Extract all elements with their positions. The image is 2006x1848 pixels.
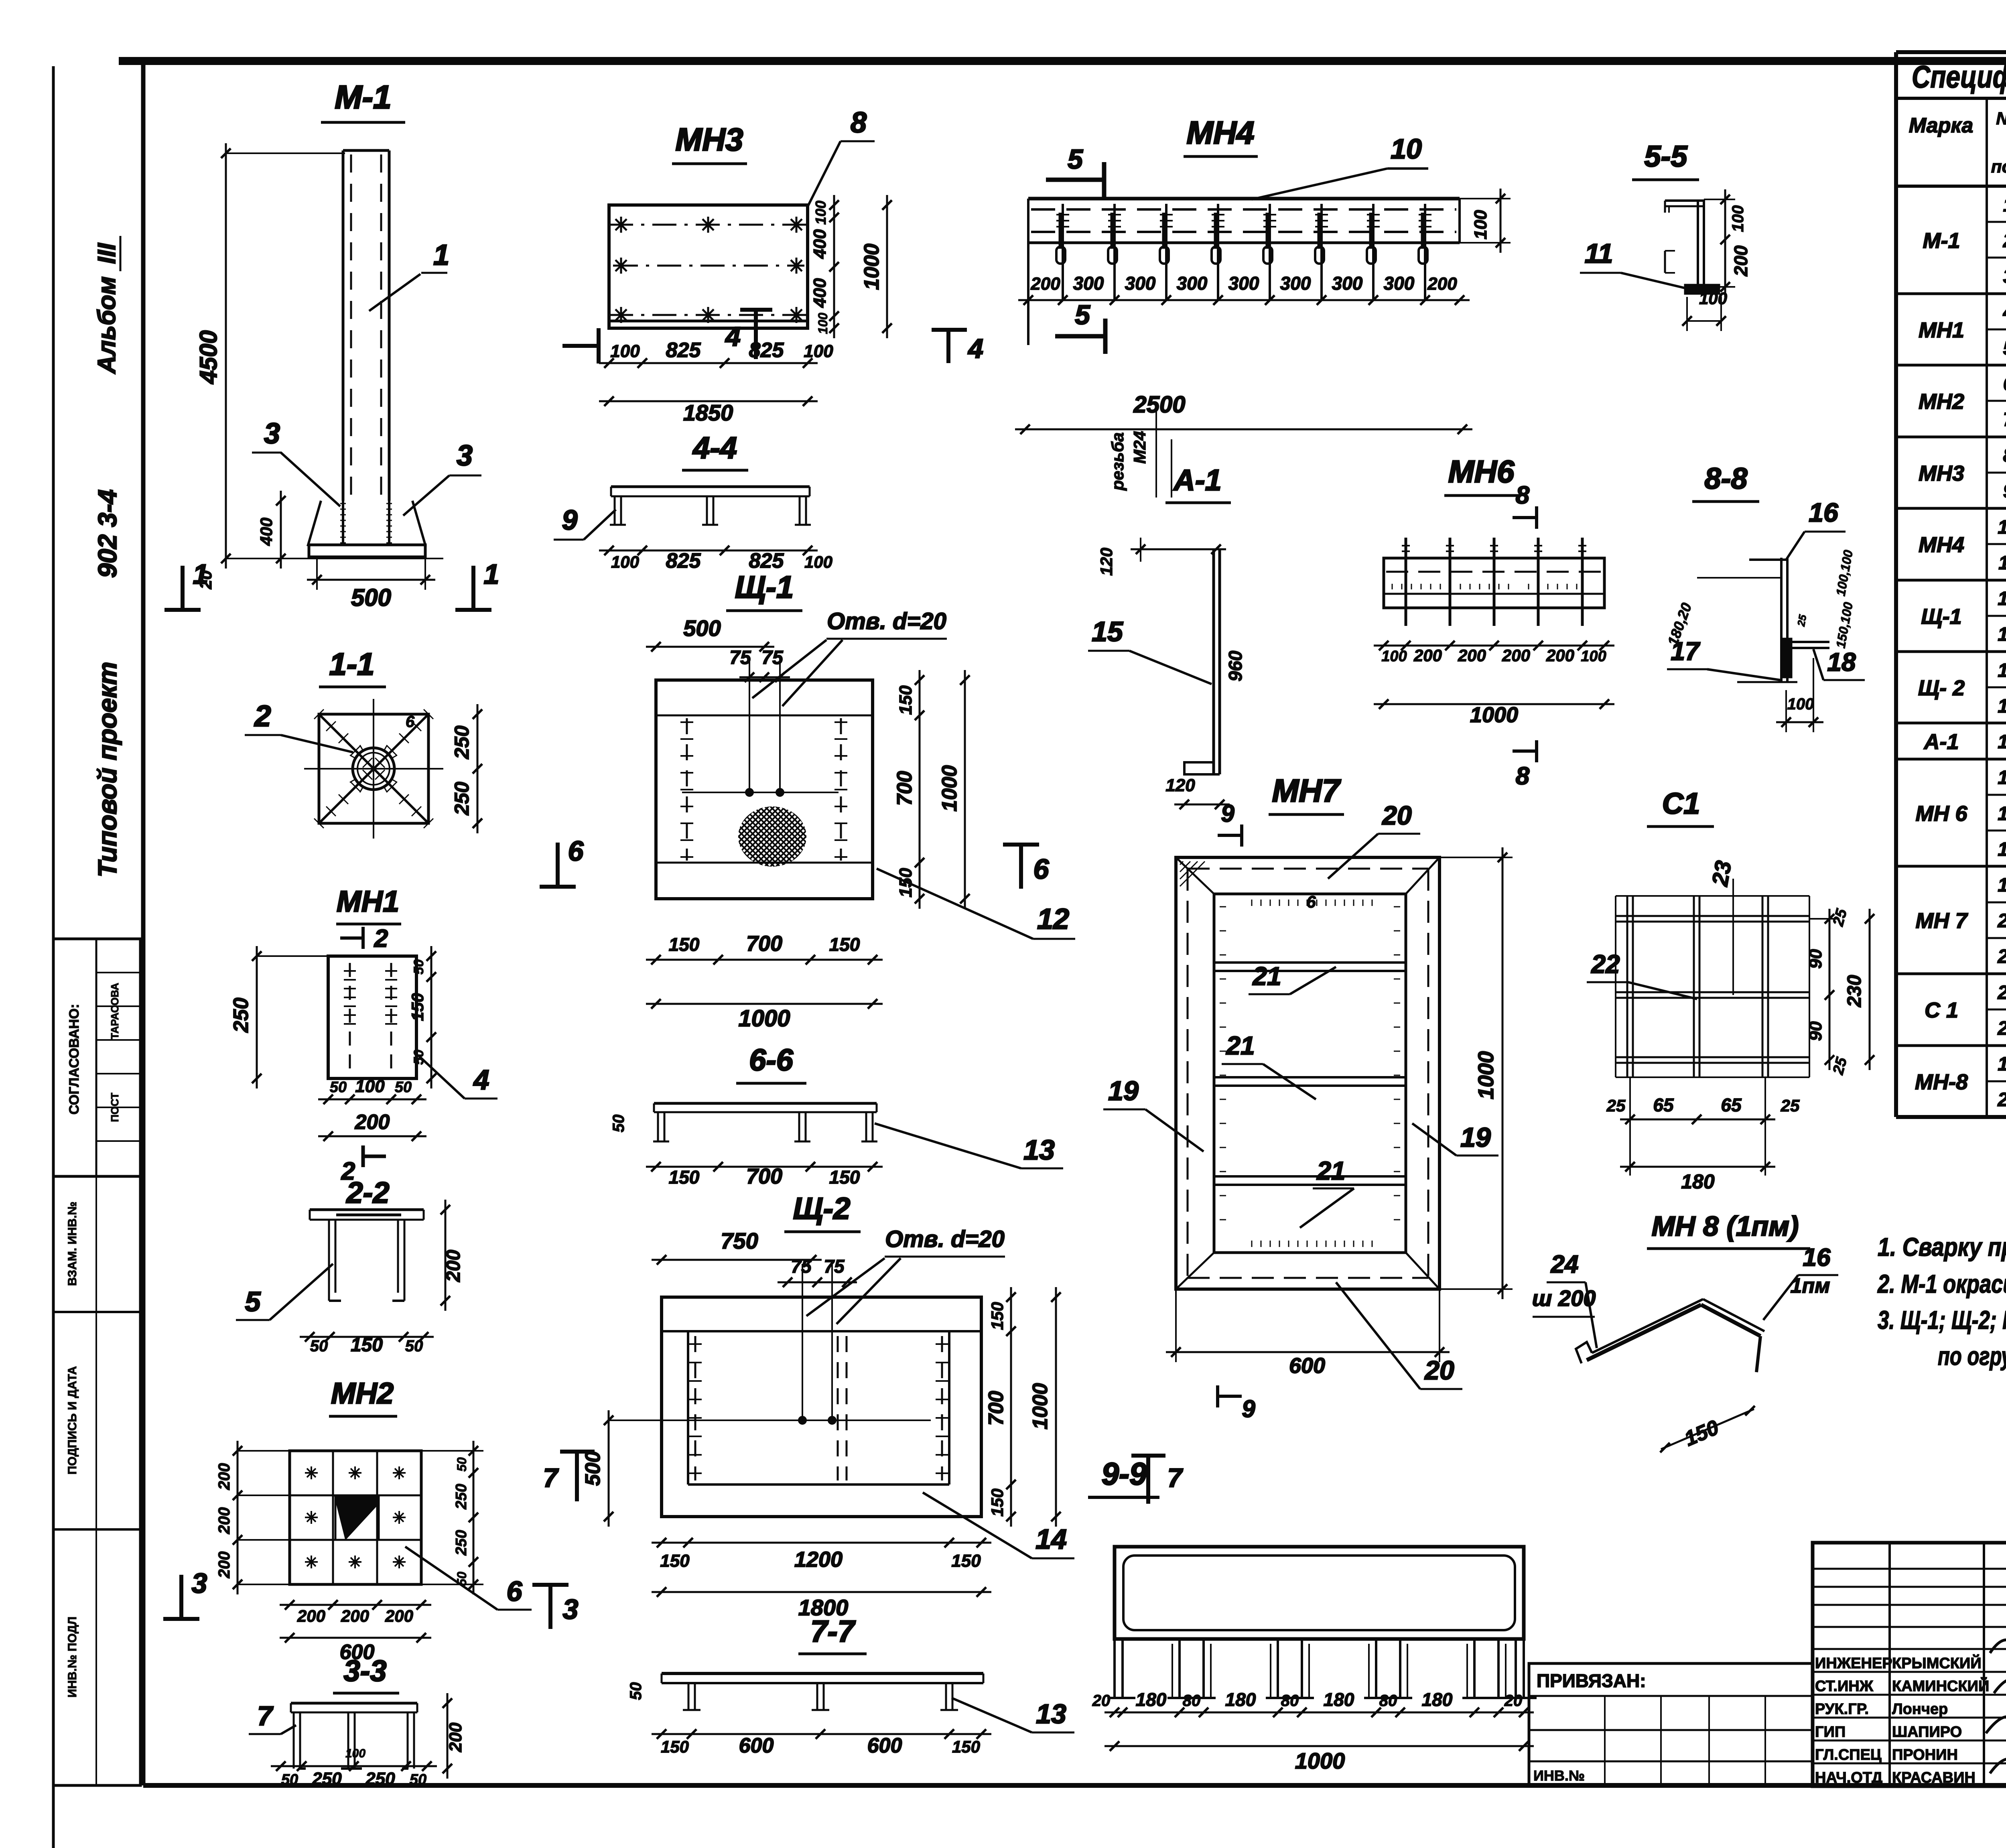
svg-text:25: 25 (1781, 1096, 1800, 1115)
svg-text:8: 8 (1516, 481, 1530, 509)
svg-text:1: 1 (484, 558, 499, 590)
svg-text:700: 700 (985, 1391, 1008, 1426)
svg-text:11: 11 (1585, 238, 1613, 269)
svg-text:21: 21 (1226, 1031, 1255, 1060)
svg-text:19: 19 (1460, 1122, 1491, 1153)
svg-text:по огрунтовке железным суриком: по огрунтовке железным суриком по ГОСТ 8… (1938, 1342, 2006, 1371)
svg-text:400: 400 (810, 278, 830, 308)
svg-text:250: 250 (365, 1769, 395, 1789)
svg-text:500: 500 (581, 1451, 605, 1486)
svg-text:24: 24 (1997, 1089, 2006, 1111)
svg-text:200: 200 (297, 1606, 325, 1625)
svg-text:ИНВ.№ ПОДЛ: ИНВ.№ ПОДЛ (66, 1616, 79, 1698)
svg-text:5: 5 (245, 1286, 261, 1317)
svg-text:100: 100 (1787, 695, 1814, 713)
svg-text:МН4: МН4 (1187, 115, 1255, 150)
svg-text:ПОДПИСЬ И ДАТА: ПОДПИСЬ И ДАТА (66, 1366, 79, 1474)
svg-text:25: 25 (1795, 613, 1809, 628)
svg-text:Альбом: Альбом (93, 276, 121, 374)
svg-text:Отв. d=20: Отв. d=20 (885, 1226, 1005, 1252)
svg-text:19: 19 (1108, 1076, 1139, 1106)
svg-text:80: 80 (1281, 1692, 1299, 1710)
svg-text:150: 150 (829, 934, 860, 955)
svg-text:100: 100 (345, 1747, 365, 1760)
svg-text:3: 3 (264, 418, 280, 450)
svg-text:8-8: 8-8 (1705, 462, 1748, 495)
svg-text:300: 300 (1332, 273, 1363, 294)
svg-text:6: 6 (1033, 853, 1050, 885)
svg-text:Щ-1: Щ-1 (735, 569, 794, 605)
svg-text:МН6: МН6 (1448, 454, 1515, 489)
svg-text:3: 3 (563, 1594, 579, 1625)
svg-text:75: 75 (824, 1256, 845, 1277)
svg-text:ПРОНИН: ПРОНИН (1892, 1746, 1958, 1763)
svg-text:1000: 1000 (1295, 1748, 1345, 1773)
svg-text:МН2: МН2 (1919, 390, 1964, 414)
svg-text:резьба: резьба (1108, 433, 1127, 491)
svg-text:100: 100 (1581, 648, 1606, 665)
svg-text:300: 300 (1384, 273, 1415, 294)
svg-text:9: 9 (1221, 800, 1234, 827)
svg-text:100: 100 (804, 341, 833, 361)
svg-text:16: 16 (1803, 1244, 1831, 1271)
svg-text:10: 10 (1998, 517, 2006, 538)
svg-text:МН4: МН4 (1919, 533, 1964, 557)
svg-text:300: 300 (1125, 273, 1156, 294)
svg-text:200: 200 (1458, 646, 1486, 665)
svg-text:19: 19 (1998, 875, 2006, 896)
svg-text:180: 180 (1681, 1170, 1715, 1193)
svg-text:6: 6 (1306, 892, 1316, 911)
svg-text:6-6: 6-6 (749, 1043, 794, 1077)
svg-text:4500: 4500 (195, 330, 222, 384)
svg-text:24: 24 (1551, 1251, 1579, 1278)
svg-text:17: 17 (1671, 637, 1701, 666)
svg-text:МН-8: МН-8 (1915, 1070, 1968, 1094)
svg-text:11: 11 (1998, 552, 2006, 574)
svg-text:50: 50 (405, 1337, 423, 1355)
svg-text:500: 500 (351, 584, 391, 611)
svg-text:7: 7 (257, 1701, 274, 1731)
svg-text:А-1: А-1 (1923, 730, 1959, 754)
svg-text:Щ- 2: Щ- 2 (1918, 676, 1965, 700)
svg-text:3-3: 3-3 (344, 1654, 387, 1688)
svg-text:150: 150 (952, 1737, 980, 1756)
svg-text:поз.: поз. (1991, 157, 2006, 177)
svg-text:NN: NN (1996, 109, 2006, 128)
svg-text:150: 150 (829, 1167, 860, 1188)
svg-text:17: 17 (1998, 803, 2006, 824)
svg-text:250: 250 (453, 1530, 470, 1556)
svg-text:250: 250 (312, 1769, 342, 1789)
svg-text:3: 3 (2003, 266, 2006, 287)
svg-text:КРЫМСКИЙ: КРЫМСКИЙ (1892, 1654, 1982, 1672)
svg-text:1000: 1000 (938, 765, 961, 812)
svg-text:825: 825 (666, 339, 701, 362)
svg-text:80: 80 (1379, 1692, 1397, 1710)
svg-text:150: 150 (660, 1551, 690, 1571)
svg-text:100: 100 (804, 552, 832, 571)
svg-text:12: 12 (1037, 903, 1069, 935)
svg-text:90: 90 (1806, 949, 1825, 969)
svg-text:9: 9 (1242, 1395, 1255, 1422)
svg-text:ШАПИРО: ШАПИРО (1892, 1724, 1962, 1740)
svg-text:250: 250 (453, 1484, 470, 1509)
svg-text:14: 14 (1998, 660, 2006, 681)
svg-text:200: 200 (215, 1507, 233, 1535)
svg-text:22: 22 (1997, 982, 2006, 1003)
svg-text:9: 9 (2003, 481, 2006, 502)
svg-text:100: 100 (355, 1076, 385, 1096)
svg-text:Отв. d=20: Отв. d=20 (827, 608, 946, 634)
svg-text:МН7: МН7 (1272, 773, 1341, 808)
svg-text:Марка: Марка (1909, 114, 1974, 137)
svg-text:100: 100 (1699, 289, 1727, 308)
svg-text:120: 120 (1165, 776, 1195, 795)
svg-text:13: 13 (1998, 696, 2006, 717)
svg-text:ИНЖЕНЕР: ИНЖЕНЕР (1815, 1655, 1892, 1672)
svg-text:5-5: 5-5 (1645, 140, 1688, 173)
svg-text:16: 16 (1809, 498, 1839, 527)
svg-text:6: 6 (2003, 374, 2006, 395)
svg-text:600: 600 (867, 1734, 902, 1757)
svg-text:СОГЛАСОВАНО:: СОГЛАСОВАНО: (67, 1004, 82, 1115)
svg-text:14: 14 (1035, 1523, 1067, 1555)
svg-text:4: 4 (725, 321, 741, 352)
svg-text:2: 2 (374, 925, 388, 952)
svg-text:М-1: М-1 (1923, 229, 1960, 253)
svg-text:20: 20 (1997, 910, 2006, 932)
svg-text:1: 1 (2003, 195, 2006, 216)
svg-text:МН 8 (1пм): МН 8 (1пм) (1652, 1210, 1799, 1242)
svg-text:150: 150 (669, 1167, 700, 1188)
svg-text:1: 1 (193, 558, 209, 590)
svg-text:22: 22 (1591, 950, 1620, 979)
svg-text:23: 23 (1707, 859, 1736, 888)
svg-text:18: 18 (1827, 648, 1856, 676)
svg-text:7-7: 7-7 (810, 1614, 856, 1649)
svg-text:ПОСТ: ПОСТ (109, 1093, 121, 1122)
svg-text:8: 8 (1516, 762, 1530, 790)
svg-text:ГИП: ГИП (1815, 1724, 1846, 1740)
svg-text:600: 600 (1289, 1354, 1325, 1378)
svg-text:150: 150 (896, 685, 916, 715)
svg-text:5: 5 (1068, 144, 1083, 175)
svg-text:1: 1 (433, 239, 449, 271)
svg-text:80: 80 (1183, 1692, 1201, 1710)
svg-text:1-1: 1-1 (329, 646, 375, 682)
svg-text:2: 2 (254, 699, 271, 733)
svg-text:МН3: МН3 (676, 122, 743, 157)
svg-text:МН 6: МН 6 (1915, 802, 1967, 826)
svg-text:ВЗАМ. ИНВ.№: ВЗАМ. ИНВ.№ (66, 1202, 79, 1286)
svg-text:5: 5 (2003, 338, 2006, 359)
svg-text:23: 23 (1997, 1018, 2006, 1039)
svg-text:1пм: 1пм (1790, 1274, 1830, 1298)
svg-text:700: 700 (893, 771, 916, 806)
svg-text:200: 200 (1413, 646, 1442, 665)
svg-text:65: 65 (1653, 1095, 1674, 1115)
svg-text:25: 25 (1606, 1096, 1626, 1115)
svg-text:1000: 1000 (1470, 703, 1518, 727)
svg-text:КРАСАВИН: КРАСАВИН (1892, 1769, 1976, 1786)
svg-text:4: 4 (2003, 302, 2006, 323)
svg-text:150: 150 (669, 934, 700, 955)
svg-text:6: 6 (507, 1576, 523, 1607)
svg-text:5: 5 (1075, 300, 1090, 330)
svg-text:ПРИВЯЗАН:: ПРИВЯЗАН: (1537, 1670, 1646, 1691)
svg-text:20: 20 (1092, 1692, 1111, 1710)
svg-text:1000: 1000 (738, 1005, 790, 1032)
svg-text:1850: 1850 (683, 400, 733, 425)
svg-text:75: 75 (729, 647, 751, 668)
svg-text:200: 200 (215, 1552, 233, 1579)
svg-text:600: 600 (739, 1734, 774, 1757)
svg-text:200: 200 (385, 1606, 413, 1625)
svg-text:М24: М24 (1130, 431, 1149, 464)
svg-text:ТАРАСОВА: ТАРАСОВА (109, 983, 121, 1039)
svg-text:180: 180 (1422, 1689, 1453, 1710)
svg-text:7: 7 (543, 1463, 559, 1493)
svg-text:2: 2 (2003, 230, 2006, 252)
svg-text:50: 50 (410, 1771, 426, 1788)
svg-text:902 3-4: 902 3-4 (93, 489, 122, 578)
svg-text:200: 200 (1546, 646, 1574, 665)
svg-text:13: 13 (1998, 624, 2006, 645)
svg-text:200: 200 (355, 1111, 390, 1134)
svg-text:100: 100 (1471, 210, 1490, 240)
svg-text:2-2: 2-2 (346, 1176, 390, 1209)
svg-text:150: 150 (661, 1737, 689, 1756)
svg-text:4-4: 4-4 (692, 431, 737, 465)
svg-text:700: 700 (746, 932, 782, 956)
svg-text:300: 300 (1073, 273, 1104, 294)
svg-text:21: 21 (1997, 946, 2006, 967)
svg-text:150: 150 (988, 1302, 1007, 1330)
svg-text:150: 150 (951, 1551, 981, 1571)
svg-text:12: 12 (1998, 588, 2006, 609)
svg-text:230: 230 (1844, 975, 1865, 1007)
svg-text:8: 8 (2003, 445, 2006, 466)
svg-text:МН1: МН1 (1919, 318, 1964, 342)
svg-text:50: 50 (455, 1457, 469, 1472)
svg-text:СТ.ИНЖ: СТ.ИНЖ (1815, 1678, 1874, 1695)
svg-text:9: 9 (562, 504, 578, 536)
svg-text:50: 50 (395, 1079, 412, 1096)
svg-text:4: 4 (967, 333, 983, 364)
svg-text:180: 180 (1324, 1689, 1354, 1710)
svg-text:300: 300 (1280, 273, 1311, 294)
svg-text:200: 200 (446, 1722, 465, 1753)
svg-text:III: III (93, 242, 121, 264)
svg-text:16: 16 (1998, 1054, 2006, 1075)
svg-text:Типовой проект: Типовой проект (93, 662, 122, 877)
svg-text:МН 7: МН 7 (1915, 909, 1968, 933)
svg-text:13: 13 (1036, 1699, 1066, 1729)
svg-text:1000: 1000 (1474, 1051, 1498, 1099)
svg-text:825: 825 (666, 549, 701, 573)
svg-text:МН1: МН1 (337, 885, 399, 918)
svg-text:С 1: С 1 (1925, 998, 1958, 1022)
svg-text:500: 500 (683, 615, 721, 641)
svg-text:200: 200 (1502, 646, 1530, 665)
svg-text:120: 120 (1097, 548, 1116, 576)
svg-text:300: 300 (1228, 273, 1259, 294)
svg-text:100: 100 (610, 341, 640, 361)
svg-text:150: 150 (351, 1334, 383, 1356)
svg-text:20: 20 (1381, 800, 1412, 830)
svg-text:2. М-1 окрасить двумя слоями к: 2. М-1 окрасить двумя слоями краски БТ-1… (1877, 1269, 2006, 1298)
svg-text:МН3: МН3 (1919, 461, 1964, 485)
svg-text:50: 50 (627, 1682, 645, 1700)
svg-text:90: 90 (1806, 1021, 1825, 1041)
svg-text:21: 21 (1316, 1156, 1345, 1185)
svg-text:400: 400 (810, 229, 830, 259)
svg-text:Лончер: Лончер (1892, 1701, 1948, 1718)
svg-text:50: 50 (281, 1771, 298, 1788)
svg-text:3: 3 (457, 440, 473, 472)
svg-text:50: 50 (330, 1079, 347, 1096)
svg-text:7: 7 (2003, 409, 2006, 431)
svg-text:16: 16 (1998, 767, 2006, 788)
svg-text:200: 200 (1730, 245, 1751, 276)
svg-text:6: 6 (406, 713, 415, 731)
svg-text:65: 65 (1721, 1095, 1742, 1115)
svg-text:250: 250 (451, 782, 473, 816)
svg-text:МН2: МН2 (331, 1377, 394, 1410)
svg-text:4: 4 (473, 1064, 489, 1095)
svg-text:ИНВ.№: ИНВ.№ (1533, 1767, 1585, 1784)
svg-text:21: 21 (1252, 962, 1281, 991)
svg-text:50: 50 (411, 959, 426, 975)
svg-text:8: 8 (851, 107, 867, 139)
svg-text:300: 300 (1177, 273, 1208, 294)
svg-text:200: 200 (341, 1606, 369, 1625)
svg-text:3: 3 (192, 1568, 207, 1599)
svg-text:250: 250 (451, 725, 473, 760)
svg-text:3. Щ-1; Щ-2; МН 7 окрасить мас: 3. Щ-1; Щ-2; МН 7 окрасить масляной крас… (1878, 1306, 2006, 1334)
svg-text:150: 150 (408, 993, 427, 1021)
svg-text:180: 180 (1136, 1689, 1167, 1710)
svg-text:1000: 1000 (1029, 1383, 1052, 1430)
svg-text:1. Сварку производить электрод: 1. Сварку производить электродами типа Э… (1878, 1233, 2006, 1261)
svg-text:Щ-2: Щ-2 (793, 1192, 851, 1226)
svg-text:1000: 1000 (860, 244, 883, 290)
svg-text:9-9: 9-9 (1102, 1456, 1147, 1491)
svg-text:С1: С1 (1662, 787, 1700, 820)
svg-text:РУК.ГР.: РУК.ГР. (1815, 1701, 1869, 1718)
svg-text:2500: 2500 (1133, 392, 1185, 418)
svg-text:15: 15 (1092, 616, 1123, 647)
svg-text:НАЧ.ОТД: НАЧ.ОТД (1815, 1769, 1882, 1786)
svg-text:150: 150 (988, 1489, 1007, 1517)
svg-text:15: 15 (1998, 731, 2006, 753)
svg-text:100: 100 (816, 313, 830, 334)
svg-text:180: 180 (1225, 1689, 1256, 1710)
svg-text:50: 50 (610, 1115, 627, 1133)
svg-text:Спецификация стали на одну шту: Спецификация стали на одну штуку каждой … (1912, 59, 2006, 94)
svg-text:750: 750 (721, 1228, 758, 1253)
svg-text:13: 13 (1023, 1134, 1055, 1166)
svg-text:7: 7 (1167, 1463, 1184, 1493)
svg-text:75: 75 (791, 1256, 812, 1277)
svg-text:200: 200 (1030, 274, 1060, 294)
svg-text:1200: 1200 (794, 1547, 843, 1572)
svg-text:700: 700 (746, 1164, 782, 1188)
svg-text:ГЛ.СПЕЦ: ГЛ.СПЕЦ (1815, 1746, 1882, 1763)
svg-text:400: 400 (257, 518, 276, 546)
svg-text:М-1: М-1 (335, 79, 391, 116)
svg-text:Щ-1: Щ-1 (1921, 605, 1961, 629)
svg-text:КАМИНСКИЙ: КАМИНСКИЙ (1892, 1677, 1989, 1695)
svg-text:10: 10 (1391, 133, 1422, 164)
svg-text:100: 100 (611, 552, 639, 571)
svg-text:100: 100 (1381, 648, 1407, 665)
svg-text:960: 960 (1225, 650, 1246, 681)
svg-text:100: 100 (1729, 205, 1747, 232)
svg-text:А-1: А-1 (1173, 463, 1221, 497)
svg-text:18: 18 (1998, 839, 2006, 860)
svg-text:100: 100 (812, 201, 829, 225)
svg-text:200: 200 (215, 1463, 233, 1491)
svg-text:50: 50 (310, 1337, 328, 1355)
svg-text:200: 200 (1427, 274, 1457, 294)
svg-text:250: 250 (229, 998, 253, 1033)
svg-text:20: 20 (1504, 1692, 1523, 1710)
svg-text:6: 6 (568, 835, 584, 867)
